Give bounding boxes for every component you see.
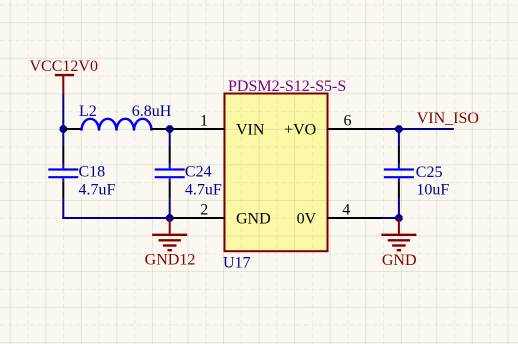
junction D (C18 / C24 / GND12 / pin 2) — [166, 214, 173, 221]
svg-text:VIN_ISO: VIN_ISO — [417, 110, 479, 127]
svg-text:GND: GND — [236, 210, 271, 227]
svg-text:1: 1 — [200, 113, 208, 130]
svg-text:10uF: 10uF — [416, 182, 449, 199]
pin 4 lead — [328, 217, 383, 219]
svg-text:U17: U17 — [223, 255, 251, 272]
junction A (VCC / L2 / C18) — [60, 125, 67, 132]
svg-text:6: 6 — [344, 113, 352, 130]
power symbol VCC12V0 — [55, 75, 74, 93]
svg-text:L2: L2 — [79, 103, 97, 120]
pin 2 lead — [170, 217, 225, 219]
svg-text:VIN: VIN — [236, 121, 265, 138]
svg-text:4.7uF: 4.7uF — [79, 182, 116, 199]
svg-text:C25: C25 — [416, 164, 443, 181]
svg-text:C24: C24 — [185, 164, 212, 181]
capacitor C25 — [384, 146, 414, 199]
component U17 body (PDSM2-S12-S5-S) — [225, 94, 328, 252]
ground symbol GND — [381, 218, 416, 250]
junction E (pin 4 / C25 / GND) — [395, 214, 402, 221]
wire C down to C25 — [398, 129, 400, 146]
wire VCC stem — [62, 93, 64, 129]
wire C25 bottom — [398, 199, 400, 218]
svg-text:PDSM2-S12-S5-S: PDSM2-S12-S5-S — [228, 78, 346, 95]
svg-text:GND: GND — [382, 252, 417, 269]
svg-text:4: 4 — [342, 202, 350, 219]
svg-text:C18: C18 — [79, 164, 106, 181]
svg-text:VCC12V0: VCC12V0 — [30, 58, 98, 75]
capacitor C24 — [155, 146, 185, 199]
wire C24 bottom — [169, 199, 171, 218]
svg-text:2: 2 — [200, 202, 208, 219]
svg-text:GND12: GND12 — [145, 251, 196, 268]
svg-text:0V: 0V — [297, 210, 317, 227]
wire A down to C18 — [62, 129, 64, 146]
inductor L2 — [63, 119, 169, 131]
junction C (pin 6 / C25 / VIN_ISO) — [395, 125, 402, 132]
wire pin 4 to junction E — [383, 217, 399, 219]
svg-text:+VO: +VO — [284, 121, 316, 138]
wire pin 6 to junction C — [383, 128, 454, 130]
junction B (L2 / C24 / pin 1) — [166, 125, 173, 132]
svg-text:4.7uF: 4.7uF — [185, 182, 222, 199]
wire C18 bottom — [62, 199, 64, 218]
wire B down to C24 — [169, 129, 171, 146]
pin 1 lead — [170, 128, 225, 130]
capacitor C18 — [48, 146, 78, 199]
svg-text:6.8uH: 6.8uH — [132, 103, 172, 120]
pin 6 lead — [328, 128, 383, 130]
ground symbol GND12 — [152, 218, 187, 250]
